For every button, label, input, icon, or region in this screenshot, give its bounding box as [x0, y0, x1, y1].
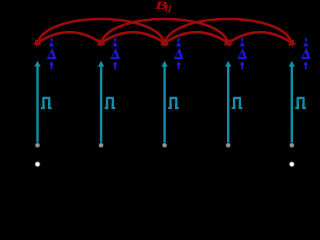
label Delta site 3	[174, 48, 184, 59]
atom (gray dot) site 2	[98, 143, 103, 148]
Rabi drive arrow (Omega) site 4	[225, 61, 231, 143]
label Omega site 2	[105, 97, 116, 109]
Rabi drive arrow (Omega) site 2	[98, 61, 104, 143]
coupling arc B12 between site 1 and site 2	[33, 32, 106, 46]
coupling arc B24 between site 2 and site 4	[99, 19, 231, 47]
detuning arrow (Delta, dashed) site 2	[112, 38, 118, 70]
label Omega site 4	[232, 97, 243, 109]
detuning arrow (Delta, dashed) site 4	[239, 38, 245, 70]
detuning arrow (Delta, dashed) site 3	[176, 38, 182, 70]
coupling arc B13 between site 1 and site 3	[35, 19, 167, 47]
atom (gray dot) site 4	[226, 143, 231, 148]
label Delta site 5	[301, 48, 311, 59]
label Omega site 3	[168, 97, 179, 109]
bright atom (white dot) left end	[34, 161, 40, 167]
svg-text:ij: ij	[165, 3, 173, 13]
label Omega site 1	[41, 97, 52, 109]
label Delta site 4	[237, 48, 247, 59]
detuning arrow (Delta, dashed) site 5	[303, 38, 309, 70]
Rabi drive arrow (Omega) site 1	[34, 61, 40, 143]
label Delta site 2	[110, 48, 120, 59]
atom (gray dot) site 3	[162, 143, 167, 148]
label Delta site 1	[47, 48, 57, 59]
atom (gray dot) site 1	[35, 143, 40, 148]
detuning arrow (Delta, dashed) site 1	[49, 38, 55, 70]
coupling arc B23 between site 2 and site 3	[96, 32, 169, 46]
Rabi drive arrow (Omega) site 5	[289, 61, 295, 143]
label Omega site 5	[295, 97, 306, 109]
bright atom (white dot) right end	[289, 161, 295, 167]
label B_ij for coupling strengths	[153, 0, 172, 13]
coupling arc B34 between site 3 and site 4	[160, 32, 233, 46]
atom (gray dot) site 5	[289, 143, 294, 148]
coupling arc B35 between site 3 and site 5	[162, 19, 294, 47]
coupling arc B45 between site 4 and site 5	[223, 32, 296, 46]
Rabi drive arrow (Omega) site 3	[161, 61, 167, 143]
